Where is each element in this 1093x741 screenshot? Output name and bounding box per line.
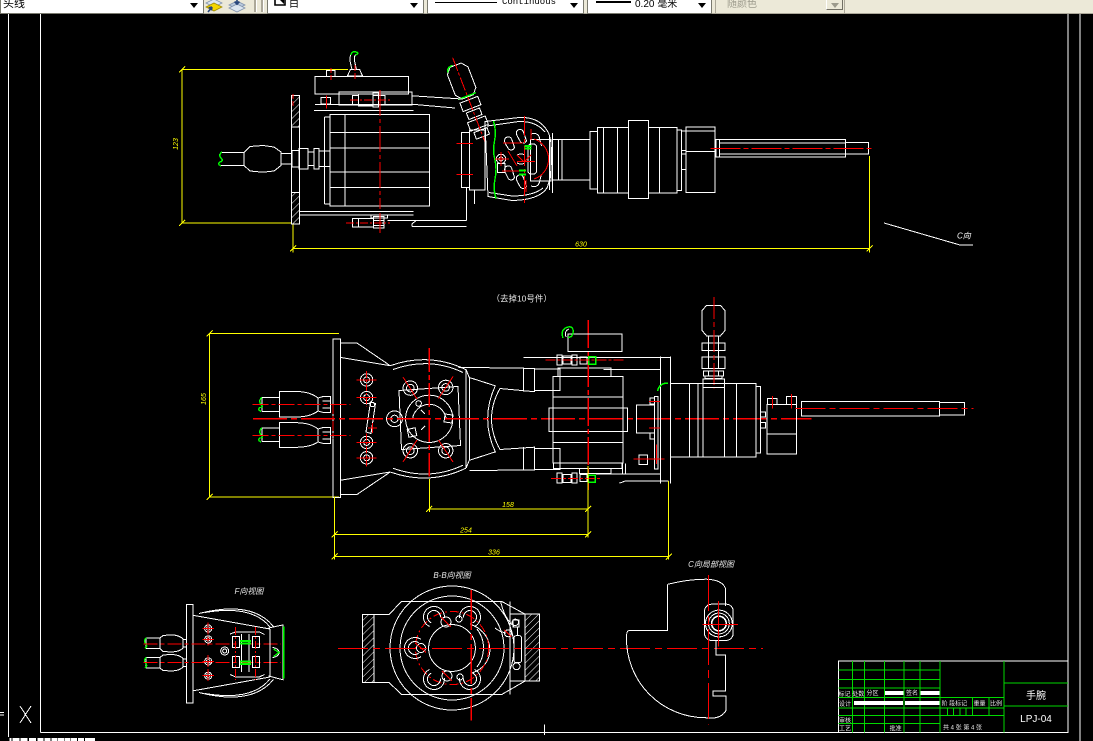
svg-text:254: 254: [459, 528, 472, 535]
C direction leader: [884, 223, 973, 245]
red centerline bottom bolt row: [551, 477, 600, 479]
F lower red centerline: [144, 662, 281, 664]
wrist mount plates: [462, 130, 486, 221]
bearing plate (square): [387, 387, 461, 450]
cone housing outline: [341, 343, 469, 495]
svg-text:工艺: 工艺: [839, 725, 851, 733]
right name section divider: [1003, 661, 1005, 733]
F mouth detail: [273, 648, 280, 658]
svg-text:123: 123: [173, 138, 180, 150]
output shaft: [716, 140, 869, 158]
link screw red slash: [505, 630, 512, 637]
flange plate: [333, 339, 341, 497]
right link mechanism: [495, 602, 521, 670]
dim 336 yellow: [332, 481, 672, 559]
B-B red vertical centerline: [470, 590, 472, 721]
frame plate right: [524, 356, 671, 483]
red diagonal centerline of fitting: [453, 58, 485, 142]
red centerline of bottom bolt: [346, 213, 390, 233]
left hand rod: [221, 146, 330, 173]
svg-text:C向: C向: [957, 232, 972, 241]
wrist head outline: [485, 117, 552, 200]
red crosshairs of flange bolts: [357, 371, 377, 467]
svg-text:阶 段标记: 阶 段标记: [942, 700, 968, 708]
F mouth green edge: [283, 626, 285, 678]
svg-text:LPJ-04: LPJ-04: [1020, 714, 1052, 725]
svg-text:F向视图: F向视图: [235, 587, 265, 596]
red cross ticks in head: [495, 129, 535, 192]
red centerline top bolt row: [546, 359, 625, 361]
upper gripper finger: [262, 392, 331, 418]
red vertical at flange: [332, 404, 334, 438]
pneumatic cylinder: [671, 384, 797, 457]
dim 254 yellow: [332, 497, 592, 538]
command line text fragments at bottom edge: [10, 738, 96, 741]
plate corner bolts with red slashes: [403, 380, 453, 458]
bearing block right of motor: [637, 396, 658, 469]
F mouth green chevron: [274, 649, 280, 657]
fork yoke: [459, 367, 561, 470]
svg-text:分区: 分区: [867, 689, 879, 697]
svg-text:630: 630: [575, 242, 587, 249]
green cable tip: [351, 52, 358, 55]
red vertical centerline of head: [524, 116, 526, 205]
green clamp bars in head: [519, 146, 532, 175]
right section horizontal lines: [1004, 682, 1068, 684]
layer combobox: [0, 0, 204, 14]
F flange plate: [186, 604, 193, 703]
svg-text:手腕: 手腕: [1026, 689, 1046, 702]
F lower finger green tip: [144, 658, 146, 669]
svg-text:签名: 签名: [906, 689, 918, 697]
middle small cells verticals: [947, 708, 949, 716]
flange bolt holes (left column): [360, 374, 372, 464]
plot style combobox (disabled): [715, 0, 845, 14]
paper inner frame left: [40, 14, 42, 733]
dim 630 horizontal (yellow): [290, 156, 873, 253]
F upper finger: [146, 635, 186, 652]
bottom bolt row: [557, 473, 587, 483]
svg-text:（去掉10号件）: （去掉10号件）: [491, 294, 551, 304]
paper inner frame bottom: [41, 732, 1068, 734]
red ticks on mount plate: [457, 144, 474, 175]
svg-text:165: 165: [201, 393, 208, 405]
make layer current icon: [206, 0, 222, 12]
F red mid verticals: [236, 627, 256, 680]
toolbar: layer controls: [0, 0, 1093, 14]
title block: [839, 661, 1068, 733]
F lower finger: [146, 654, 186, 671]
hose fitting (angled): [442, 54, 495, 146]
svg-text:设计: 设计: [839, 700, 851, 708]
C outline: [626, 579, 725, 718]
layer tool icons: [203, 0, 249, 13]
band with hatched ends: [363, 602, 540, 695]
toolbar separator: [254, 0, 257, 12]
svg-text:C向局部视图: C向局部视图: [688, 560, 735, 569]
filled-in name fields (white bars): [854, 691, 939, 705]
arm band to coupling: [550, 133, 590, 193]
svg-text:B-B向视图: B-B向视图: [433, 571, 471, 580]
middle section header row lines: [940, 697, 1004, 699]
red vertical centerline of bearing: [428, 348, 430, 477]
upper finger red centerline: [253, 404, 351, 406]
red ticks at bearing block: [634, 401, 665, 464]
red main vertical centerline of motor: [379, 90, 381, 209]
svg-text:比例: 比例: [990, 700, 1002, 708]
bore circle: [429, 625, 476, 672]
lower finger green tip: [259, 428, 263, 442]
linetype combobox: [427, 0, 584, 14]
paper outer frame right: [1079, 14, 1081, 741]
UCS icon X label: [0, 706, 31, 723]
red shaft centerline: [711, 147, 872, 149]
dim 123 vertical (yellow): [179, 67, 348, 227]
lineweight combobox: [587, 0, 712, 14]
C red centerlines: [703, 575, 738, 725]
sheet center tick mark: [544, 725, 546, 736]
green selected contour in head: [494, 121, 497, 199]
clamp arc right of bore: [477, 629, 484, 667]
lower finger red centerline: [253, 434, 351, 436]
flange plate with hatching: [291, 96, 299, 225]
green arc on cylinder corner: [658, 383, 669, 391]
red arc in head: [534, 139, 549, 179]
green square (selected nut) top: [589, 357, 596, 364]
svg-text:批准: 批准: [890, 725, 902, 733]
red vertical motor centerline: [587, 320, 589, 490]
red centerline of top bolt: [293, 65, 390, 109]
outer circles: [390, 586, 514, 710]
revision grid horizontal lines: [839, 669, 940, 671]
long shared red horizontal centerline: [338, 648, 763, 650]
valve stack on cylinder: [702, 306, 725, 388]
red mark on link rod: [368, 423, 377, 433]
F central carriage: [230, 632, 265, 677]
title block outer border: [839, 661, 1068, 733]
red ticks on connector: [772, 394, 791, 409]
bolt lugs: [404, 603, 484, 694]
F bolt red crosshairs: [203, 623, 215, 682]
title block labels: [839, 689, 1003, 733]
F upper finger green tip: [144, 638, 146, 649]
svg-text:共 4 张 第 4 张: 共 4 张 第 4 张: [943, 724, 982, 732]
bolt circle red dashed: [415, 611, 488, 684]
upper finger green tip: [259, 398, 263, 412]
coupling stack: [590, 121, 715, 199]
motor top bracket: [314, 55, 414, 111]
F upper red centerline: [144, 643, 281, 645]
F green clamp bars: [240, 641, 251, 664]
F cone body: [193, 609, 283, 697]
svg-text:标记: 标记: [839, 690, 851, 698]
paper inner frame right: [1067, 14, 1069, 733]
paper outer frame left: [8, 14, 10, 737]
main red horizontal centerline: [253, 418, 811, 420]
motor bottom bracket: [300, 212, 467, 229]
svg-text:审核: 审核: [839, 717, 851, 725]
svg-text:336: 336: [488, 550, 500, 557]
green cable hook top left: [562, 327, 573, 338]
svg-text:处数: 处数: [852, 690, 864, 698]
motor body: [325, 115, 430, 206]
dim 165 vertical yellow: [207, 331, 339, 500]
link rod: [366, 402, 376, 434]
middle section divider: [939, 661, 941, 733]
head inner mechanism: [496, 129, 551, 188]
link from bracket to fitting area: [412, 96, 462, 108]
piston rod long: [802, 402, 965, 416]
svg-text:158: 158: [502, 502, 514, 509]
revision grid vertical lines: [852, 661, 854, 733]
svg-text:重量: 重量: [974, 700, 986, 708]
lower gripper finger: [262, 423, 331, 448]
lug screws with red slashes: [417, 616, 464, 681]
green edges on fitting: [446, 61, 476, 100]
green square (selected nut) bottom: [588, 475, 595, 482]
red rod centerline: [796, 407, 974, 409]
top bolt row: [557, 355, 587, 365]
green tip of rod (selection): [219, 152, 223, 166]
red vertical valve centerline: [713, 297, 715, 389]
color combobox: [267, 0, 424, 14]
bracket above motor: [568, 334, 622, 351]
motor assembly: [549, 368, 627, 474]
F bolt holes: [205, 625, 229, 679]
dim 158 yellow: [426, 466, 591, 512]
C boss: [705, 604, 734, 640]
